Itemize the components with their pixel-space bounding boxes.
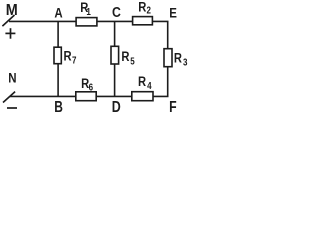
wire top M-A-C-E <box>9 20 169 22</box>
terminal N <box>3 92 15 103</box>
svg-text:C: C <box>112 4 121 20</box>
svg-text:R: R <box>174 50 182 65</box>
svg-text:D: D <box>112 99 121 117</box>
node M label <box>6 1 18 19</box>
resistor R3 <box>164 49 172 67</box>
label R7 <box>64 48 72 63</box>
svg-text:M: M <box>6 1 18 19</box>
node F label <box>169 99 177 117</box>
svg-text:R: R <box>138 74 146 89</box>
node N label <box>8 69 16 85</box>
svg-text:R: R <box>121 49 129 64</box>
resistor R1 <box>76 18 97 26</box>
wire vertical A-B <box>57 21 59 96</box>
node B label <box>54 97 63 115</box>
resistor R4 <box>132 92 153 101</box>
svg-text:6: 6 <box>89 82 93 93</box>
label R2 <box>138 0 146 15</box>
label R5 <box>121 49 129 64</box>
node E label <box>169 4 177 20</box>
label R6 <box>81 76 89 91</box>
resistor R6 <box>76 92 96 101</box>
svg-text:1: 1 <box>86 6 90 17</box>
svg-text:2: 2 <box>147 5 151 16</box>
terminal M <box>2 15 14 26</box>
resistor R2 <box>133 17 153 25</box>
svg-text:N: N <box>8 69 16 85</box>
svg-text:A: A <box>54 4 62 20</box>
svg-text:5: 5 <box>130 56 134 67</box>
node D label <box>112 99 121 117</box>
node A label <box>54 4 62 20</box>
svg-text:7: 7 <box>72 55 76 66</box>
svg-text:3: 3 <box>183 57 187 68</box>
svg-text:E: E <box>169 4 177 20</box>
polarity plus (M) <box>5 28 15 39</box>
svg-text:R: R <box>64 48 72 63</box>
label R1 <box>80 0 88 15</box>
label R4 <box>138 74 146 89</box>
wire bottom N-B-D-F <box>10 95 169 97</box>
svg-text:F: F <box>169 99 177 117</box>
resistor R5 <box>111 46 119 64</box>
svg-text:4: 4 <box>147 80 151 91</box>
svg-text:R: R <box>138 0 146 15</box>
wire vertical C-D <box>114 21 116 96</box>
node C label <box>112 4 121 20</box>
label R3 <box>174 50 182 65</box>
svg-text:B: B <box>54 97 63 115</box>
wire vertical E-F <box>167 21 169 96</box>
polarity minus (N) <box>7 107 17 109</box>
resistor R7 <box>54 47 61 64</box>
